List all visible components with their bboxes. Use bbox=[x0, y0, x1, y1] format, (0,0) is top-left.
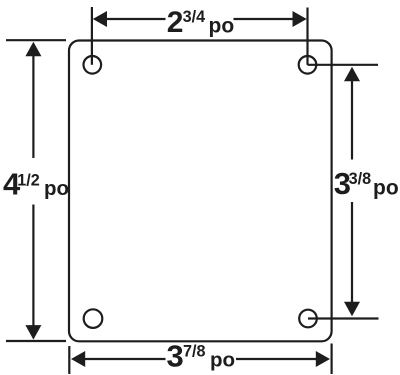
arrowhead left dimension down bbox=[25, 325, 41, 340]
svg-text:po: po bbox=[210, 348, 235, 371]
bottom dimension line left segment bbox=[84, 358, 166, 360]
svg-text:2: 2 bbox=[167, 6, 184, 39]
left dimension line upper segment bbox=[32, 55, 34, 158]
arrowhead right dimension up bbox=[344, 67, 360, 82]
label 2 3/4 po top bbox=[167, 6, 234, 39]
hole top-left bbox=[84, 56, 102, 74]
svg-text:3/4: 3/4 bbox=[183, 8, 206, 26]
top dimension line right segment bbox=[234, 18, 295, 20]
label 4 1/2 po left bbox=[3, 167, 69, 202]
top dimension line left segment bbox=[105, 18, 166, 20]
arrowhead bottom dimension right bbox=[316, 351, 330, 367]
plate outline bbox=[69, 41, 332, 342]
extension line bottom-right below plate bbox=[331, 344, 333, 375]
arrowhead left dimension up bbox=[25, 42, 41, 57]
svg-text:3/8: 3/8 bbox=[349, 170, 372, 188]
svg-text:po: po bbox=[373, 177, 399, 200]
arrowhead top dimension right bbox=[293, 11, 307, 27]
svg-text:po: po bbox=[209, 15, 235, 38]
extension line through bottom-right hole bbox=[308, 317, 379, 319]
arrowhead top dimension left bbox=[93, 11, 107, 27]
hole bottom-left bbox=[84, 309, 103, 328]
left dimension line lower segment bbox=[32, 205, 34, 327]
label 3 3/8 po right bbox=[334, 166, 399, 201]
svg-text:po: po bbox=[44, 177, 69, 200]
hole bottom-right bbox=[299, 310, 317, 328]
right dimension line lower segment bbox=[351, 202, 353, 304]
bottom dimension line right segment bbox=[236, 358, 317, 360]
extension line from top-left hole up bbox=[91, 7, 93, 65]
svg-text:3: 3 bbox=[167, 339, 184, 374]
label 3 7/8 po bottom bbox=[167, 339, 236, 374]
arrowhead bottom dimension left bbox=[71, 351, 85, 367]
hole top-right bbox=[299, 56, 317, 74]
svg-text:7/8: 7/8 bbox=[183, 342, 206, 360]
svg-text:1/2: 1/2 bbox=[17, 171, 40, 189]
arrowhead right dimension down bbox=[344, 302, 360, 317]
extension line bottom-left below plate bbox=[68, 346, 70, 374]
extension line through top-right hole bbox=[308, 64, 379, 66]
extension line from top-right hole up bbox=[306, 8, 308, 65]
extension line left dimension top bbox=[6, 39, 66, 41]
right dimension line upper segment bbox=[351, 80, 353, 160]
extension line left dimension bottom bbox=[6, 340, 66, 342]
